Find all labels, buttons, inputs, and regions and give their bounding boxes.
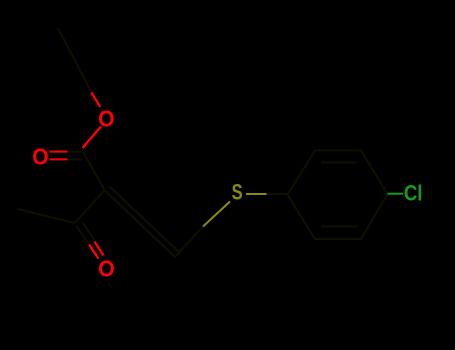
wire S-ring sulfur half bbox=[246, 193, 267, 195]
wire C1=O2 double bond carbon halves bbox=[68, 152, 83, 160]
svg-text:O: O bbox=[98, 105, 114, 131]
wire ring-Cl bond green bbox=[388, 193, 404, 195]
wire C1-C2 bbox=[82, 150, 105, 190]
svg-text:O: O bbox=[32, 143, 48, 169]
svg-text:O: O bbox=[98, 256, 114, 282]
wire C1=O2 double bond red halves bbox=[50, 152, 68, 160]
wire C3-S sulfur half bbox=[203, 202, 230, 227]
wire C2-Ck acetyl bbox=[75, 190, 105, 223]
wire S-ring carbon half bbox=[267, 193, 288, 195]
wire Ck=O3 ketone double bond red halves bbox=[89, 242, 104, 259]
svg-text:Cl: Cl bbox=[404, 182, 422, 206]
wire C2=C3 double bond line1 bbox=[105, 190, 176, 257]
wire O1-C1 ester bond red bbox=[83, 127, 102, 149]
wire ethyl CH2-O red half bbox=[91, 92, 100, 107]
wire C2=C3 double bond line2 bbox=[110, 187, 181, 254]
benzene ring edges bbox=[288, 151, 388, 240]
benzene inner aromatic line top bbox=[321, 162, 358, 164]
svg-text:S: S bbox=[232, 180, 243, 205]
wire C3-S carbon half bbox=[175, 227, 203, 258]
wire ethyl chain C-C part bbox=[58, 28, 91, 92]
benzene inner aromatic line bottom bbox=[321, 226, 358, 228]
wire Ck-CH3 bbox=[17, 209, 75, 223]
wire Ck=O3 ketone double bond carbon halves bbox=[77, 223, 95, 245]
